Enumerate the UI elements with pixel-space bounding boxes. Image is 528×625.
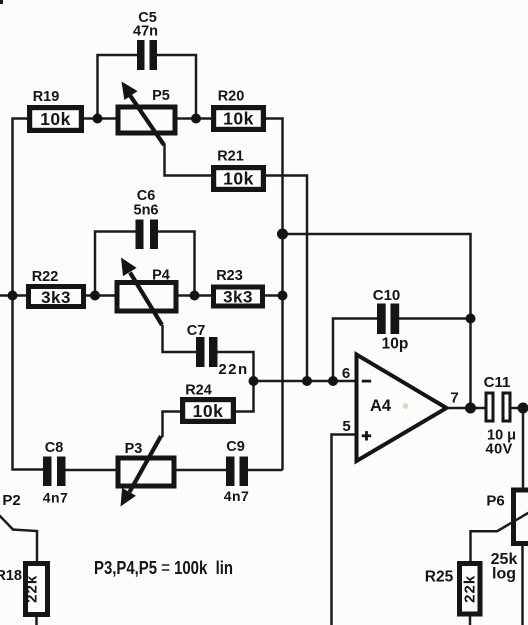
op-amp A4: [357, 355, 447, 462]
wire: C7 right down to node, R24 right: [217, 352, 254, 412]
wire: P5 right to R20: [175, 117, 211, 120]
wire: C6 loop left: [95, 232, 136, 296]
svg-text:C8: C8: [45, 440, 64, 456]
wire: C10 left leg: [333, 319, 378, 382]
svg-text:P3: P3: [125, 441, 143, 457]
svg-text:R20: R20: [218, 89, 245, 105]
resistor R22: [26, 269, 86, 309]
wire: R24 left down to P3 wiper: [163, 412, 181, 438]
wire: feedback top rail: [283, 234, 471, 408]
resistor R20: [211, 89, 266, 133]
node C10 input: [328, 376, 338, 386]
svg-text:P5: P5: [152, 88, 170, 104]
svg-text:3k3: 3k3: [41, 288, 71, 307]
svg-text:P4: P4: [152, 268, 170, 284]
svg-text:10p: 10p: [382, 336, 409, 353]
capacitor C11: [484, 374, 516, 458]
svg-text:5: 5: [342, 418, 350, 435]
node P4/R23: [190, 291, 200, 301]
svg-text:C11: C11: [484, 374, 511, 391]
svg-text:22k: 22k: [24, 575, 41, 603]
wire: P6 wiper: [497, 506, 528, 532]
svg-text:R22: R22: [32, 269, 59, 285]
svg-text:log: log: [492, 566, 516, 583]
svg-text:47n: 47n: [133, 24, 158, 40]
capacitor C8: [43, 440, 69, 506]
svg-text:22n: 22n: [218, 361, 248, 378]
wire: pin5 line down: [332, 435, 357, 625]
node feedback top: [277, 229, 288, 240]
svg-text:5n6: 5n6: [134, 203, 159, 219]
wire: C5 loop left: [98, 55, 138, 119]
capacitor C6: [134, 188, 159, 249]
node R22/P4: [90, 291, 100, 301]
svg-text:R21: R21: [217, 149, 244, 165]
wire: P6 wiper to R25: [471, 531, 498, 561]
capacitor C7: [187, 323, 249, 378]
resistor R25: [425, 561, 483, 617]
wire: P5 wiper to R21: [165, 144, 212, 176]
wire: R19 right to P5: [84, 117, 118, 120]
wire: P2 wiper: [0, 514, 13, 530]
svg-text:P2: P2: [2, 492, 20, 509]
svg-text:P6: P6: [486, 493, 504, 510]
wire: R18 bottom: [35, 617, 38, 625]
svg-text:R19: R19: [33, 89, 60, 105]
svg-text:C7: C7: [187, 323, 206, 339]
svg-text:4n7: 4n7: [224, 488, 250, 504]
svg-text:A4: A4: [370, 397, 392, 415]
capacitor C10: [373, 287, 409, 353]
svg-text:R24: R24: [185, 383, 212, 399]
node C7/R24 input: [249, 376, 259, 386]
resistor R19: [27, 89, 84, 133]
resistor R23: [211, 268, 265, 309]
wire: R19 left to left rail down to C8: [13, 119, 44, 470]
wire: output to C11: [446, 407, 485, 410]
svg-text:4n7: 4n7: [43, 490, 69, 506]
wire: left edge stub to R22: [0, 294, 26, 297]
svg-text:7: 7: [450, 390, 458, 407]
resistor R24: [180, 383, 236, 425]
svg-text:R25: R25: [425, 569, 454, 586]
resistor R21: [211, 149, 266, 193]
svg-text:R18: R18: [0, 568, 22, 584]
wire: R23 right to output rail: [265, 294, 283, 297]
svg-text:10k: 10k: [223, 109, 254, 129]
wire: P4 right to R23: [176, 294, 211, 297]
wire: output node down to P6: [522, 408, 525, 488]
node C11 right: [518, 403, 528, 414]
svg-text:10k: 10k: [40, 109, 71, 129]
capacitor C9: [224, 439, 250, 504]
potentiometer P6: [486, 490, 528, 583]
capacitor C5: [133, 10, 158, 70]
node P5/R20: [191, 114, 201, 124]
svg-text:40V: 40V: [486, 442, 513, 458]
node R21 input: [302, 376, 312, 386]
wire: P6 below vertical: [521, 543, 524, 625]
node R19/P5: [93, 114, 103, 124]
wire: C10 right leg: [399, 317, 471, 320]
wire: C6 loop right: [158, 232, 195, 296]
wire: R22 right to P4: [86, 294, 117, 297]
wire: R21 right down to minus input line: [266, 176, 307, 382]
wire: C5 loop right: [157, 55, 196, 119]
wire: R20 right down long vertical to C9: [266, 119, 283, 471]
node R23 right: [278, 291, 288, 301]
node output 7: [465, 403, 476, 414]
potentiometer P4: [117, 258, 176, 326]
wire: C11 right to edge: [511, 407, 528, 410]
svg-text:22k: 22k: [462, 575, 479, 603]
node C10 right: [466, 314, 476, 324]
svg-text:10k: 10k: [223, 169, 254, 189]
potentiometer P2 partial: [2, 492, 20, 509]
svg-text:3k3: 3k3: [223, 288, 253, 307]
svg-text:R23: R23: [216, 268, 243, 284]
svg-text:10k: 10k: [193, 401, 224, 421]
svg-text:6: 6: [342, 365, 350, 382]
svg-text:C10: C10: [373, 287, 401, 304]
wire: P2 to R18: [12, 530, 37, 562]
wire: R25 bottom: [469, 617, 472, 625]
node R22 left rail: [8, 291, 18, 301]
wire: P3 to C9: [174, 469, 226, 472]
potentiometer P3: [118, 436, 174, 507]
resistor R18: [0, 561, 50, 617]
svg-text:C9: C9: [226, 439, 245, 455]
wire: C9 right: [248, 469, 283, 472]
svg-text:P3,P4,P5 = 100k lin: P3,P4,P5 = 100k lin: [94, 558, 233, 578]
wire: minus input line: [254, 380, 357, 383]
potentiometer P5: [118, 82, 175, 146]
wire: P4 wiper down to C7: [163, 325, 197, 352]
wire: C8 to P3: [66, 469, 119, 472]
